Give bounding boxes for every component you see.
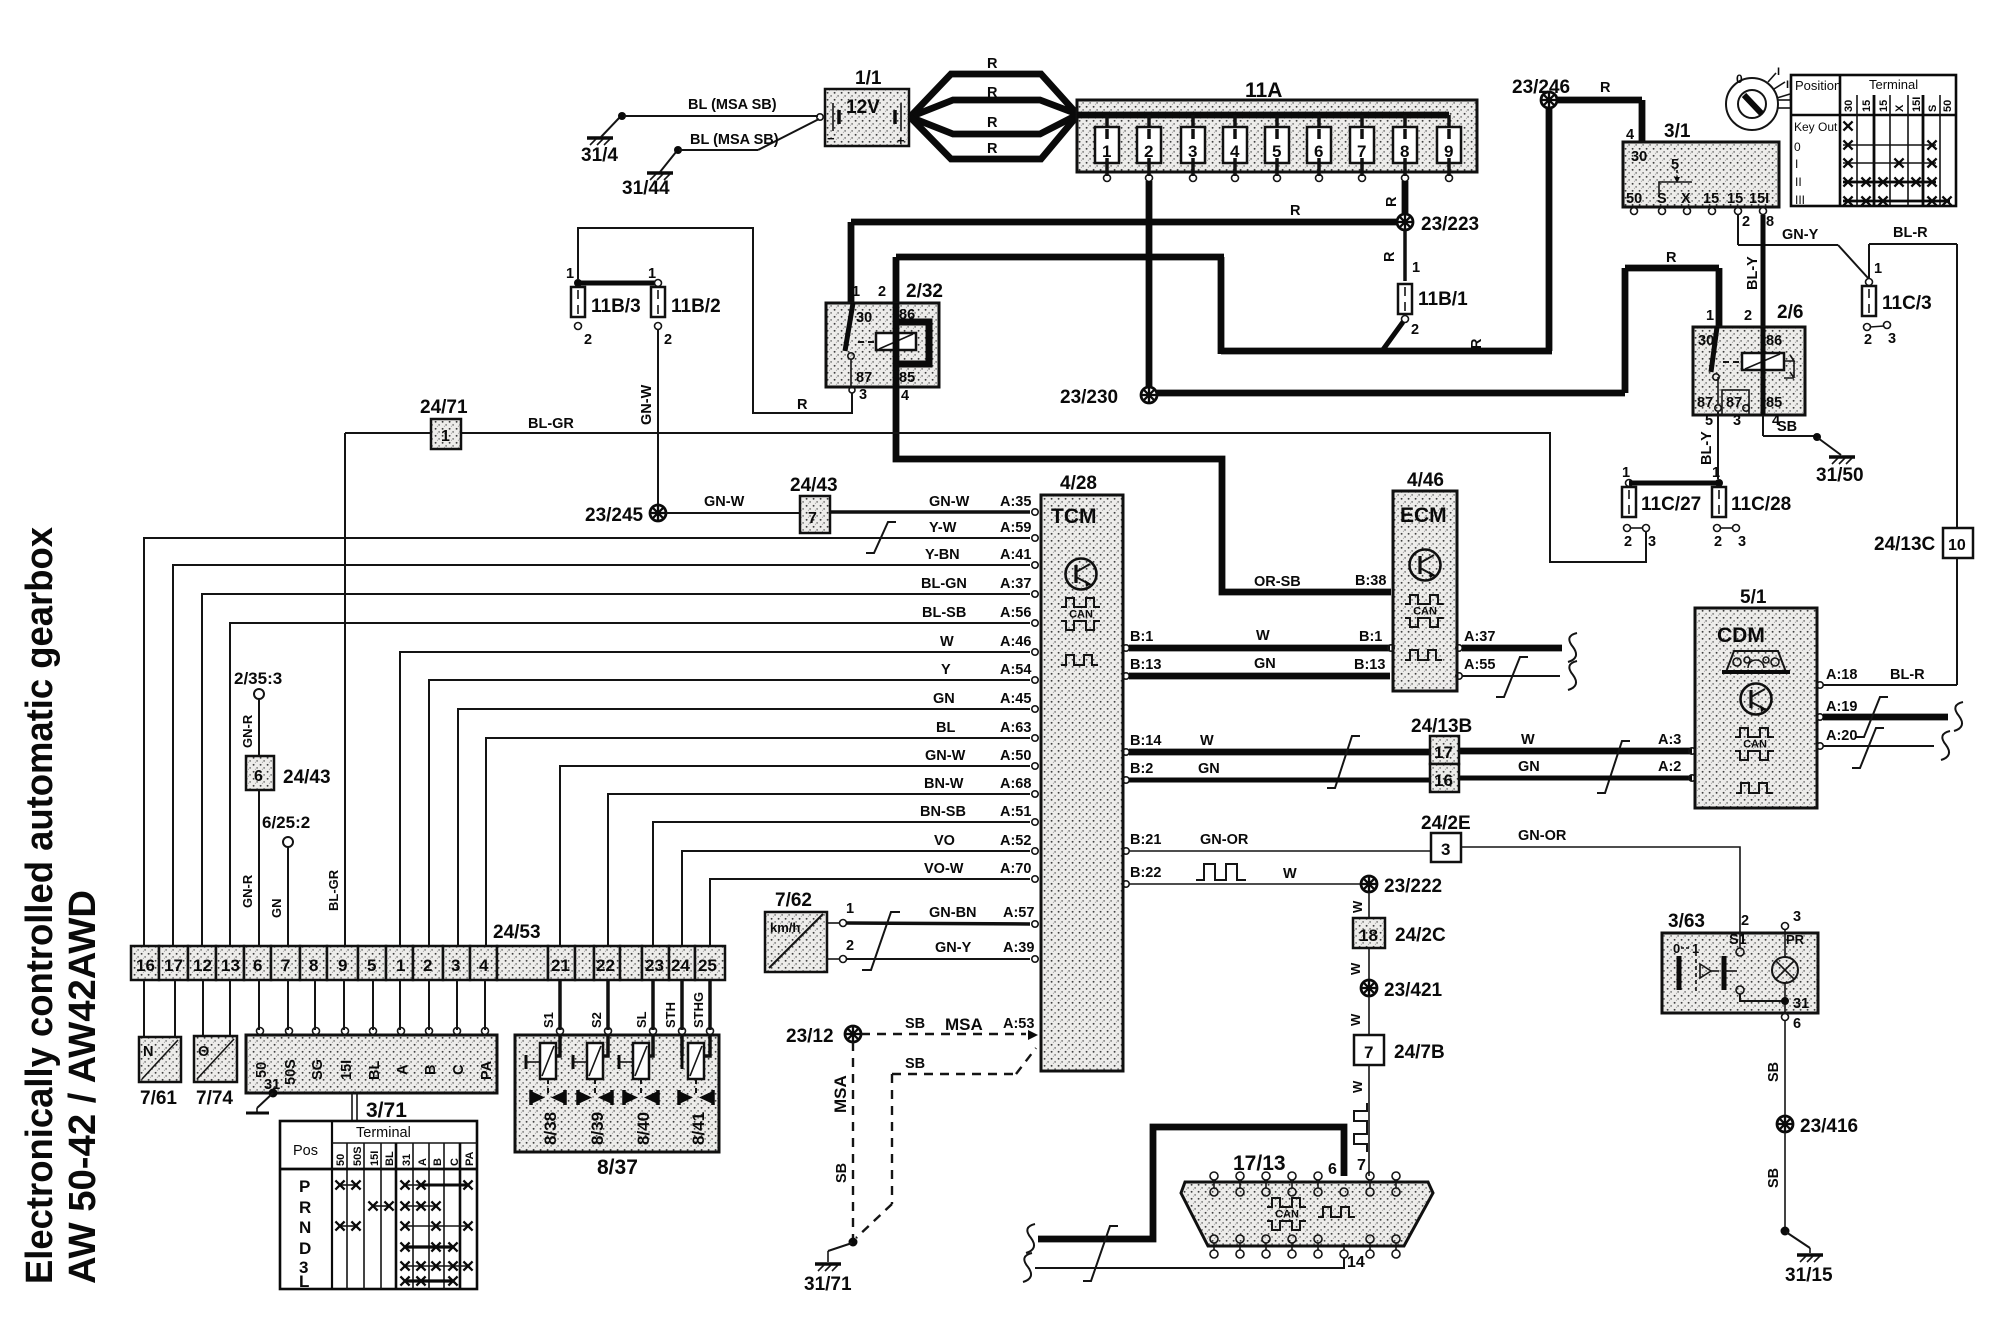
connector 24/71 box 1 (345, 397, 468, 449)
svg-text:BL-GR: BL-GR (528, 416, 574, 432)
svg-text:17: 17 (1434, 743, 1453, 762)
svg-text:2: 2 (1624, 534, 1632, 550)
svg-text:3: 3 (451, 956, 460, 975)
ground 31/71 (804, 1238, 858, 1296)
svg-text:8/41: 8/41 (689, 1112, 708, 1145)
junction 23/223 (1397, 214, 1479, 235)
svg-text:2/32: 2/32 (906, 281, 943, 302)
svg-text:7/74: 7/74 (196, 1088, 233, 1109)
svg-text:4/46: 4/46 (1407, 470, 1444, 491)
junction 23/12 (786, 1026, 861, 1047)
fuse box 11A (1077, 79, 1477, 172)
svg-text:W: W (1350, 900, 1365, 913)
wire ECM A:37 stub (1456, 629, 1577, 662)
svg-text:A:45: A:45 (1000, 691, 1031, 707)
svg-text:BL-Y: BL-Y (1699, 431, 1715, 465)
svg-text:SB: SB (905, 1056, 925, 1072)
svg-text:A: A (417, 1158, 429, 1166)
svg-text:2: 2 (664, 332, 672, 348)
svg-text:16: 16 (1434, 771, 1453, 790)
wire fan R x4 from battery to 11A (910, 56, 1077, 159)
svg-text:0: 0 (1673, 941, 1680, 956)
wire R fuse2 down to 23/230 (1146, 181, 1153, 388)
svg-text:R: R (987, 141, 998, 157)
svg-text:24/71: 24/71 (420, 397, 468, 418)
svg-text:AW 50-42 / AW42AWD: AW 50-42 / AW42AWD (62, 890, 104, 1284)
wire GN-BN 7/62 pin1 to TCM A:57 (827, 901, 1034, 927)
svg-text:31: 31 (1793, 996, 1809, 1012)
wires 24/53 pins 21-25 down to 8/37: S1 S2 SL STH STHG (541, 980, 710, 1030)
wires 24/53 pins 6,7,8,9,5,1,2,3,4 down to 3/71 (259, 980, 485, 1030)
svg-text:2: 2 (423, 956, 432, 975)
svg-text:23/12: 23/12 (786, 1026, 834, 1047)
svg-text:SB: SB (1777, 419, 1797, 435)
svg-text:km/h: km/h (770, 920, 800, 935)
svg-text:R: R (1600, 80, 1611, 96)
svg-text:9: 9 (338, 956, 347, 975)
svg-text:A:41: A:41 (1000, 547, 1031, 563)
svg-text:X: X (1894, 104, 1906, 112)
svg-text:S2: S2 (589, 1012, 604, 1028)
svg-text:A:55: A:55 (1464, 657, 1495, 673)
svg-text:7: 7 (281, 956, 290, 975)
3/71 position table (280, 1121, 477, 1291)
connector strip 24/53 (131, 922, 725, 980)
svg-text:A:46: A:46 (1000, 634, 1031, 650)
component 7/74 (194, 1036, 237, 1109)
wire GN-OR 24/2E to 3/63 (1461, 828, 1740, 931)
svg-text:2: 2 (846, 938, 854, 954)
wire GN-W 24/43 to TCM A:35 (830, 494, 1031, 512)
svg-text:1: 1 (852, 284, 860, 300)
svg-text:24/53: 24/53 (493, 922, 541, 943)
svg-text:30: 30 (1631, 149, 1647, 165)
svg-text:7: 7 (1364, 1043, 1373, 1062)
svg-text:A:53: A:53 (1003, 1016, 1034, 1032)
svg-text:+: + (897, 133, 905, 148)
svg-text:10: 10 (1948, 537, 1966, 554)
svg-text:L: L (299, 1272, 309, 1291)
speedometer 7/62 (765, 890, 827, 972)
svg-text:GN: GN (933, 691, 955, 707)
svg-text:GN-OR: GN-OR (1200, 832, 1249, 848)
wire R 23/246 to ignition switch 3/1 pin 4 (1557, 80, 1642, 143)
wire GN-Y from 3/1 pin 15 to fuse 11C/3 (1738, 215, 1868, 278)
svg-text:50: 50 (335, 1154, 347, 1166)
svg-text:Position: Position (1795, 78, 1841, 93)
svg-text:50: 50 (1626, 191, 1642, 207)
svg-text:1: 1 (441, 428, 450, 445)
svg-text:BL-GN: BL-GN (921, 576, 967, 592)
svg-text:PA: PA (479, 1060, 495, 1080)
svg-text:BL-SB: BL-SB (922, 605, 966, 621)
svg-text:GN-W: GN-W (704, 494, 745, 510)
svg-text:24/13B: 24/13B (1411, 716, 1472, 737)
svg-text:3/63: 3/63 (1668, 911, 1705, 932)
svg-text:Y-W: Y-W (929, 520, 957, 536)
svg-text:2: 2 (584, 332, 592, 348)
svg-text:0: 0 (1794, 140, 1801, 154)
svg-text:BL-GR: BL-GR (326, 869, 341, 911)
dashed wire SB down to 31/71 (856, 1074, 892, 1238)
svg-text:30: 30 (1698, 333, 1714, 349)
svg-text:6: 6 (253, 956, 262, 975)
svg-text:3: 3 (1733, 413, 1741, 429)
wires 24/53 pins 12,13 down to 7/74 (202, 980, 204, 1036)
wire W to TCM A:46 (400, 634, 1031, 946)
wire SB 3/63 pin6 to 23/416 (1766, 1014, 1801, 1117)
svg-text:6: 6 (1793, 1016, 1801, 1032)
wire W 24/7B down to 17/13 pin 7 (1350, 1065, 1369, 1176)
svg-text:R: R (987, 85, 998, 101)
svg-text:W: W (1200, 733, 1214, 749)
wire BL (MSA SB) from 31/4 to battery (624, 97, 818, 116)
wire SB 23/416 to ground 31/15 (1766, 1132, 1833, 1286)
svg-text:11B/2: 11B/2 (671, 296, 721, 317)
svg-text:BN-W: BN-W (924, 776, 964, 792)
svg-text:−: − (827, 131, 835, 146)
svg-text:CDM: CDM (1717, 624, 1765, 647)
svg-text:23/421: 23/421 (1384, 980, 1443, 1001)
svg-text:VO: VO (934, 833, 955, 849)
svg-text:4/28: 4/28 (1060, 473, 1097, 494)
svg-text:W: W (1283, 866, 1297, 882)
wire VO to TCM A:52 (682, 833, 1031, 946)
wires 24/53 pins 16,17 down to 7/61 (143, 980, 145, 1037)
svg-text:24/7B: 24/7B (1394, 1042, 1445, 1063)
ground 31/4 (581, 112, 626, 166)
svg-text:23/230: 23/230 (1060, 387, 1118, 408)
svg-text:I: I (1795, 157, 1798, 171)
svg-text:7: 7 (1357, 142, 1366, 161)
svg-text:11C/28: 11C/28 (1731, 494, 1791, 515)
svg-text:X: X (1681, 191, 1691, 207)
svg-text:C: C (451, 1064, 467, 1075)
svg-text:A:63: A:63 (1000, 720, 1031, 736)
svg-text:13: 13 (221, 956, 240, 975)
svg-text:1: 1 (1622, 465, 1630, 481)
svg-text:1: 1 (1874, 261, 1882, 277)
svg-text:SL: SL (634, 1011, 649, 1028)
svg-text:B: B (423, 1065, 439, 1075)
svg-text:A:2: A:2 (1658, 759, 1681, 775)
svg-text:50: 50 (1942, 100, 1954, 112)
svg-text:31/44: 31/44 (622, 178, 670, 199)
svg-text:7/61: 7/61 (140, 1088, 177, 1109)
svg-text:2: 2 (1741, 913, 1749, 929)
svg-text:8: 8 (1766, 214, 1774, 230)
TCM left pin circles (1032, 509, 1038, 962)
svg-text:B:1: B:1 (1130, 629, 1153, 645)
wire BN-W to TCM A:68 (608, 776, 1031, 946)
wire GN-OR TCM B:21 to 24/2E (1123, 832, 1431, 854)
svg-text:GN-W: GN-W (639, 384, 655, 425)
svg-text:24: 24 (671, 956, 690, 975)
svg-text:3/1: 3/1 (1664, 121, 1691, 142)
solenoid SL / 8/40 (619, 1035, 658, 1145)
svg-text:31/4: 31/4 (581, 145, 618, 166)
node 2/35:3 with wire GN-R to 24/43 box 6 (234, 669, 282, 756)
svg-text:1: 1 (846, 901, 854, 917)
svg-text:GN-Y: GN-Y (1782, 227, 1819, 243)
dashed wire SB lower to TCM A:53 (892, 1048, 1036, 1074)
dashed wire MSA down from 23/12 to ground 31/71 (831, 1042, 853, 1240)
svg-text:II: II (1795, 175, 1802, 189)
svg-text:A:51: A:51 (1000, 804, 1031, 820)
svg-text:3: 3 (859, 387, 867, 403)
svg-text:A:57: A:57 (1003, 905, 1034, 921)
svg-text:A:3: A:3 (1658, 732, 1681, 748)
solenoid S2 / 8/39 (573, 1035, 612, 1145)
wire BL-R top right (1869, 225, 1957, 528)
svg-text:1: 1 (566, 266, 574, 282)
svg-text:MSA: MSA (831, 1075, 850, 1113)
svg-text:PR: PR (1786, 932, 1805, 947)
svg-text:D: D (299, 1239, 311, 1258)
svg-text:6: 6 (254, 768, 263, 785)
wire R 23/223 down to fuse 11B/1 (1382, 229, 1420, 281)
svg-text:R: R (1382, 251, 1398, 262)
solenoid S1 / 8/38 (526, 1035, 565, 1145)
svg-text:2: 2 (1714, 534, 1722, 550)
svg-text:87: 87 (856, 370, 872, 386)
relay 2/32 (826, 281, 943, 387)
wire R fuse8 down to 23/223 (1384, 181, 1405, 215)
svg-text:BL-R: BL-R (1893, 225, 1928, 241)
svg-text:4: 4 (1230, 142, 1240, 161)
svg-text:A:18: A:18 (1826, 667, 1857, 683)
svg-text:31: 31 (401, 1154, 413, 1166)
junction 23/245 (585, 505, 666, 526)
svg-text:B:22: B:22 (1130, 865, 1161, 881)
solenoid STH STHG / 8/41 (679, 1035, 713, 1145)
svg-text:23/223: 23/223 (1421, 214, 1479, 235)
svg-text:Θ: Θ (198, 1044, 209, 1060)
svg-text:SB: SB (905, 1016, 925, 1032)
svg-text:P: P (299, 1177, 310, 1196)
svg-text:GN-OR: GN-OR (1518, 828, 1567, 844)
svg-text:W: W (1350, 1080, 1365, 1093)
svg-text:4: 4 (479, 956, 489, 975)
svg-text:23/222: 23/222 (1384, 876, 1442, 897)
wire W TCM B:22 to 23/222 (1123, 864, 1361, 887)
svg-text:A:20: A:20 (1826, 728, 1857, 744)
wire W to 24/7B (1348, 996, 1369, 1035)
svg-text:S1: S1 (541, 1012, 556, 1028)
wire W 24/13B-17 to CDM A:3 (1123, 732, 1695, 793)
svg-text:23/245: 23/245 (585, 505, 644, 526)
svg-text:1: 1 (396, 956, 405, 975)
svg-text:50S: 50S (283, 1059, 299, 1085)
component 7/61 (139, 1037, 181, 1109)
svg-text:Key Out: Key Out (1794, 120, 1838, 134)
fuses 1-9 in 11A (1095, 115, 1461, 182)
svg-text:87: 87 (1726, 395, 1742, 411)
svg-text:86: 86 (1766, 333, 1782, 349)
wire R 23/246 down / across to 2/32 coil pin 2 (896, 108, 1552, 354)
fuse 11C/27 (1622, 465, 1701, 550)
svg-text:8/39: 8/39 (588, 1112, 607, 1145)
svg-text:ECM: ECM (1400, 504, 1447, 527)
svg-text:A: A (395, 1064, 411, 1075)
svg-text:15I: 15I (1749, 191, 1769, 207)
svg-text:W: W (940, 634, 954, 650)
svg-text:3: 3 (1888, 331, 1896, 347)
svg-text:A:59: A:59 (1000, 520, 1031, 536)
ignition switch 3/1 (1623, 121, 1779, 230)
svg-text:BL: BL (384, 1151, 396, 1166)
svg-text:Terminal: Terminal (356, 1125, 411, 1141)
connector 24/7B box 7 (1354, 1035, 1445, 1065)
svg-text:Terminal: Terminal (1869, 77, 1918, 92)
junction 23/230 (1060, 387, 1157, 408)
svg-text:15I: 15I (1911, 97, 1923, 112)
svg-text:I: I (1777, 66, 1780, 78)
ECM 4/46 (1393, 470, 1457, 691)
svg-text:7: 7 (1357, 1157, 1366, 1174)
svg-text:31/50: 31/50 (1816, 465, 1864, 486)
wire GN-W to TCM A:50 (560, 748, 1031, 946)
svg-text:3: 3 (1188, 142, 1197, 161)
battery 1/1 12V (817, 68, 909, 148)
connector 24/43 box 7 (790, 475, 838, 533)
wire SB 2/6 pin4 to ground 31/50 (1763, 415, 1864, 486)
svg-text:23/246: 23/246 (1512, 77, 1570, 98)
svg-text:GN: GN (1198, 761, 1220, 777)
svg-text:A:37: A:37 (1464, 629, 1495, 645)
svg-text:2: 2 (1411, 322, 1419, 338)
svg-text:A:70: A:70 (1000, 861, 1031, 877)
wire VO-W to TCM A:70 (710, 861, 1031, 946)
svg-text:N: N (143, 1044, 153, 1060)
svg-text:Electronically controlled auto: Electronically controlled automatic gear… (19, 527, 61, 1284)
svg-text:BL: BL (936, 720, 955, 736)
svg-text:7/62: 7/62 (775, 890, 812, 911)
svg-text:W: W (1348, 1013, 1363, 1026)
junction 23/246 (1512, 77, 1570, 108)
dashed wire SB MSA 23/12 to TCM A:53 (861, 1015, 1038, 1040)
svg-text:24/43: 24/43 (790, 475, 838, 496)
junction 23/416 (1777, 1116, 1858, 1137)
svg-text:2: 2 (1744, 308, 1752, 324)
wire GN-W 11B/2 pin2 down to 23/245 (639, 330, 658, 505)
svg-text:31/15: 31/15 (1785, 1265, 1833, 1286)
svg-text:1: 1 (1102, 142, 1111, 161)
svg-text:30: 30 (856, 310, 872, 326)
connector 24/43 box 6 (240, 756, 331, 946)
svg-text:3: 3 (1441, 840, 1450, 859)
svg-text:B: B (432, 1158, 444, 1166)
svg-text:14: 14 (1347, 1254, 1365, 1271)
svg-text:GN-Y: GN-Y (935, 940, 972, 956)
svg-text:6: 6 (1314, 142, 1323, 161)
svg-text:B:21: B:21 (1130, 832, 1161, 848)
svg-text:A:39: A:39 (1003, 940, 1034, 956)
wire GN 24/13B-16 to CDM A:2 (1123, 759, 1695, 783)
svg-text:50S: 50S (352, 1146, 364, 1166)
svg-text:SB: SB (1766, 1168, 1782, 1188)
svg-text:3: 3 (1738, 534, 1746, 550)
bus from 3/71 to table (352, 1093, 407, 1122)
svg-text:B:13: B:13 (1354, 657, 1385, 673)
svg-text:6: 6 (1328, 1161, 1337, 1178)
wire W down to 24/2C (1350, 892, 1369, 918)
svg-text:VO-W: VO-W (924, 861, 964, 877)
svg-text:OR-SB: OR-SB (1254, 574, 1301, 590)
svg-text:STH: STH (663, 1002, 678, 1028)
svg-text:W: W (1521, 732, 1535, 748)
svg-text:25: 25 (698, 956, 717, 975)
svg-text:15: 15 (1861, 100, 1873, 112)
svg-text:87: 87 (1697, 395, 1713, 411)
svg-text:8/37: 8/37 (597, 1156, 638, 1179)
svg-text:A:56: A:56 (1000, 605, 1031, 621)
svg-text:PA: PA (464, 1151, 476, 1166)
svg-text:GN: GN (1254, 656, 1276, 672)
svg-text:12V: 12V (846, 97, 880, 118)
wire Y-W to TCM A:59 (144, 520, 1031, 946)
svg-text:B:14: B:14 (1130, 733, 1161, 749)
wire R 11B/1 pin2 diagonal to R bus (1382, 322, 1403, 351)
connector 24/2C box 18 (1353, 918, 1446, 948)
svg-text:MSA: MSA (945, 1015, 983, 1034)
svg-text:Y-BN: Y-BN (925, 547, 960, 563)
svg-text:GN-BN: GN-BN (929, 905, 977, 921)
svg-text:2: 2 (1864, 332, 1872, 348)
wire GN-W 23/245 to 24/43 box 7 (666, 494, 800, 513)
wire W to 23/421 (1348, 948, 1369, 980)
CDM right pins A:18 A:19 A:20 (1817, 667, 1963, 768)
wire W TCM B:1 to ECM B:1 (1123, 628, 1394, 651)
svg-text:12: 12 (193, 956, 212, 975)
svg-text:S: S (1927, 105, 1939, 112)
svg-text:3: 3 (1793, 909, 1801, 925)
svg-text:B:1: B:1 (1359, 629, 1382, 645)
svg-text:GN: GN (269, 899, 284, 919)
svg-text:1: 1 (648, 266, 656, 282)
wire R 2/32 pin4 to ECM B:38 (OR-SB) (896, 387, 1391, 592)
svg-text:TCM: TCM (1051, 505, 1097, 528)
svg-text:R: R (1290, 203, 1301, 219)
svg-text:BL (MSA SB): BL (MSA SB) (688, 97, 777, 113)
svg-text:15: 15 (1703, 191, 1719, 207)
svg-text:11C/27: 11C/27 (1641, 494, 1701, 515)
wire BL (MSA SB) from 31/44 to battery (679, 119, 819, 150)
svg-text:21: 21 (551, 956, 570, 975)
svg-text:18: 18 (1359, 926, 1378, 945)
svg-text:BL-Y: BL-Y (1745, 256, 1761, 290)
svg-text:B:2: B:2 (1130, 761, 1153, 777)
connector 17/13 (1181, 1152, 1433, 1271)
svg-text:R: R (299, 1198, 311, 1217)
TCM 4/28 (1041, 473, 1123, 1071)
svg-text:24/13C: 24/13C (1874, 534, 1936, 555)
svg-text:31/71: 31/71 (804, 1274, 852, 1295)
svg-text:85: 85 (1766, 395, 1782, 411)
connector 24/2E box 3 (1421, 813, 1471, 862)
svg-text:R: R (987, 115, 998, 131)
svg-text:A:50: A:50 (1000, 748, 1031, 764)
svg-text:6/25:2: 6/25:2 (262, 813, 310, 832)
svg-text:GN-W: GN-W (929, 494, 970, 510)
wire BL-GR 24/71 to 11C/27 pin3 (462, 416, 1646, 562)
relay 2/6 (1693, 302, 1805, 415)
svg-text:III: III (1795, 193, 1805, 207)
thick CAN wire into 17/13 pin 6 (1026, 1127, 1344, 1253)
svg-text:15: 15 (1727, 191, 1743, 207)
wire BL-Y from 3/1 pin 15I to relay 2/6 pin 2 (1745, 215, 1763, 327)
switch with indicator 3/63 (1662, 909, 1818, 1013)
